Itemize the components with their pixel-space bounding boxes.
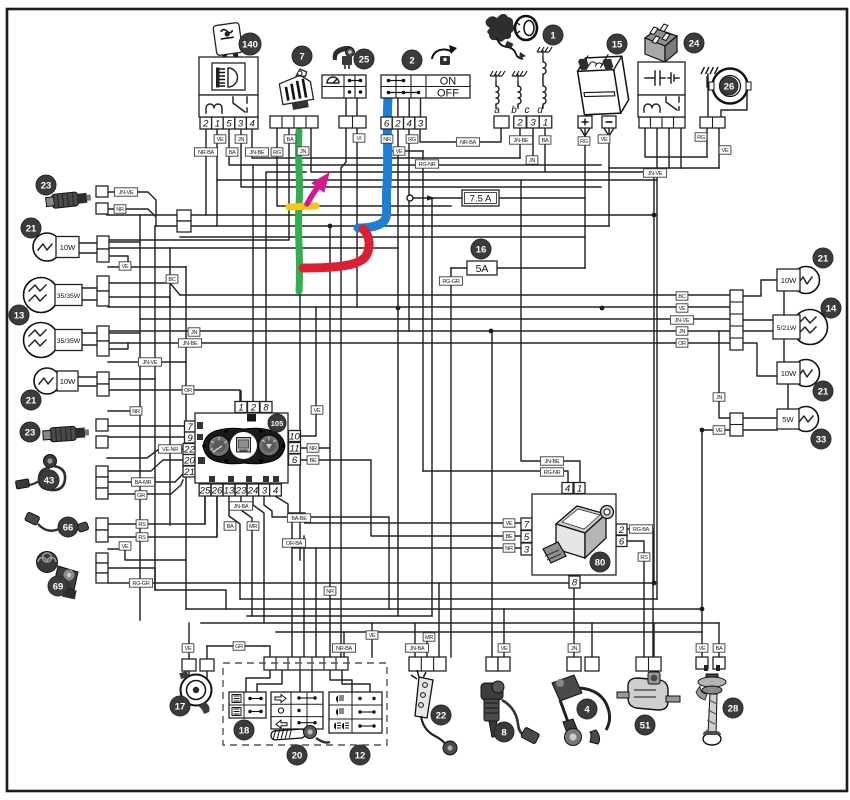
flow arrow — [427, 195, 435, 200]
svg-text:7: 7 — [299, 52, 304, 63]
wire right 10Wlow — [743, 343, 777, 376]
label RG — [578, 137, 590, 145]
label OR — [182, 386, 194, 394]
wire right lamp v2 — [783, 339, 785, 362]
svg-text:NR: NR — [383, 137, 391, 143]
badge 43 — [39, 470, 59, 490]
fuse 7.5A — [462, 190, 499, 206]
relay contact section of 140 — [199, 95, 258, 117]
pin 7 of ECU — [521, 518, 532, 530]
cluster telltale icons bottom — [209, 476, 279, 482]
wire stub 25b — [356, 98, 358, 116]
label NR-BA — [194, 148, 217, 156]
lock switch 69 icon — [37, 552, 79, 600]
pin 11 of cluster right — [289, 443, 301, 454]
label JN — [188, 328, 200, 336]
pin 7 of cluster left — [185, 421, 196, 432]
wire pin2 top — [252, 165, 254, 402]
label NR — [114, 205, 126, 213]
spark plug cap 23 top icon — [45, 190, 91, 209]
right bulb 5W icon — [777, 407, 819, 432]
svg-text:JN: JN — [571, 646, 577, 652]
wire 23 NR — [107, 209, 156, 226]
wire 23b a — [107, 425, 185, 427]
horn 26 icon — [709, 69, 751, 104]
svg-text:a: a — [494, 105, 500, 116]
label BA-MR — [131, 478, 154, 486]
svg-text:15: 15 — [612, 40, 623, 51]
wire bus BC y295 — [180, 294, 730, 296]
connector 43 a — [96, 466, 108, 477]
wire bus y632 — [276, 631, 702, 633]
badge 14 — [821, 298, 841, 318]
pin 2 of ignition switch — [392, 117, 403, 129]
svg-text:5: 5 — [226, 119, 232, 130]
label RG — [271, 148, 283, 156]
connector lamp4b — [97, 384, 109, 396]
label RS — [638, 553, 650, 561]
wire v x432 — [431, 198, 433, 616]
svg-text:3: 3 — [524, 545, 530, 556]
wire bus y609 — [186, 608, 702, 610]
wire bus y599 — [240, 598, 657, 600]
svg-text:21: 21 — [818, 387, 829, 398]
svg-text:JN-BE: JN-BE — [545, 459, 560, 465]
pin 6 of ECU — [616, 536, 627, 547]
connector of 26 — [700, 117, 725, 128]
svg-text:23: 23 — [235, 486, 247, 497]
svg-text:2: 2 — [409, 56, 414, 67]
svg-text:20: 20 — [292, 751, 303, 762]
label NR — [307, 444, 319, 452]
connector divider — [275, 657, 277, 670]
label VE — [119, 262, 131, 270]
svg-text:VE: VE — [601, 137, 608, 143]
badge 22 — [431, 705, 451, 725]
badge 12 — [350, 745, 370, 765]
svg-text:VE: VE — [679, 306, 686, 312]
wire pin22 VE-NR — [107, 449, 183, 458]
connector 8 a — [486, 657, 498, 671]
label JN — [676, 327, 688, 335]
wire right 5W b — [743, 429, 777, 431]
badge 66 — [58, 517, 78, 537]
wire 66 RS1 — [108, 496, 205, 524]
connector 43 b — [96, 477, 108, 488]
ground at horn 26 — [701, 67, 718, 74]
badge 140 — [239, 33, 261, 55]
badge 21 right low — [813, 381, 833, 401]
wire 4 drop2 — [591, 623, 593, 657]
svg-text:7: 7 — [524, 520, 530, 531]
connector divider — [293, 116, 295, 128]
pin 8 of cluster top — [260, 402, 272, 413]
wire battery plus fork — [580, 128, 585, 136]
left headlamp bulb 35/35W icon — [24, 278, 83, 313]
svg-text:24: 24 — [689, 39, 700, 50]
starter relay 24 grey cube icon — [645, 24, 677, 62]
label VE — [719, 146, 731, 154]
connector 28 b — [713, 657, 725, 669]
pin 5 of 140 — [223, 117, 235, 129]
wire horn VE — [188, 623, 190, 659]
badge 1 — [543, 25, 563, 45]
connector divider — [433, 657, 435, 671]
pin 13 of cluster bottom — [223, 484, 235, 496]
wire bus VE y307 — [108, 306, 730, 308]
svg-text:RG-GR: RG-GR — [442, 279, 459, 285]
svg-text:JN-VE: JN-VE — [648, 171, 663, 177]
pin 6 of ignition switch — [381, 117, 392, 129]
connector right col — [730, 290, 743, 350]
wire strip d5 — [330, 669, 352, 692]
svg-text:10W: 10W — [60, 377, 76, 386]
wire 8 drop1 — [491, 331, 493, 657]
svg-text:BA: BA — [287, 137, 294, 143]
svg-text:JN: JN — [716, 395, 722, 401]
svg-text:5W: 5W — [782, 415, 794, 424]
svg-text:10W: 10W — [60, 243, 76, 252]
badge 16 — [471, 239, 491, 259]
wire lamp4 b — [107, 389, 109, 391]
switch table 18 — [229, 692, 266, 718]
svg-text:JN-VE: JN-VE — [119, 190, 134, 196]
wire 2 VE link — [392, 150, 423, 152]
connector 43 c — [96, 488, 108, 499]
svg-text:3: 3 — [530, 118, 536, 129]
connector 22 — [409, 657, 446, 671]
wire bus JN y331 — [108, 330, 730, 332]
connector divider — [281, 116, 283, 128]
wire vbus x155 — [154, 226, 156, 590]
wire horn GR — [207, 645, 264, 647]
label BA — [226, 148, 238, 156]
pin 1 of magneto — [539, 116, 552, 128]
wire ECU RG-BA — [627, 529, 653, 657]
label RG-NR — [415, 160, 438, 168]
svg-text:5/21W: 5/21W — [777, 325, 797, 332]
label NR — [381, 135, 393, 143]
wire right lamp v1 — [783, 292, 785, 315]
wire right JN — [719, 331, 730, 418]
label VE — [214, 135, 226, 143]
wire pin1 top — [240, 391, 242, 402]
wire 2 pin4 RG — [408, 129, 410, 331]
throttle grip 20 icon — [271, 726, 330, 743]
svg-text:NR: NR — [326, 589, 334, 595]
oil level sensor 8 icon — [481, 681, 540, 744]
wire pin8 top — [266, 172, 306, 402]
svg-text:JN-BE: JN-BE — [183, 341, 198, 347]
wire pin21 BA-MR — [108, 474, 183, 482]
label VE — [366, 631, 378, 639]
svg-text:6: 6 — [384, 119, 390, 130]
brake / seat lock 51 icon — [617, 672, 680, 710]
svg-text:1: 1 — [215, 119, 220, 130]
svg-text:4: 4 — [584, 705, 590, 716]
svg-text:OFF: OFF — [437, 88, 459, 100]
svg-text:VE: VE — [699, 646, 706, 652]
svg-text:2: 2 — [202, 119, 209, 130]
wire strip d1 — [246, 669, 270, 692]
wire lamp2 link a — [82, 287, 97, 289]
pin 3 of 140 — [235, 117, 247, 129]
wire lamp1 b — [108, 256, 128, 267]
left headlamp bulb 35/35W icon 2 — [24, 323, 83, 358]
label VE — [713, 426, 725, 434]
inline connector b — [177, 221, 191, 232]
wire bus y623 — [201, 622, 719, 624]
label OR — [676, 339, 688, 347]
label BA — [284, 135, 296, 143]
regulator 7 icon — [277, 68, 314, 112]
wire bus JNVE y319 — [140, 318, 730, 320]
wire 7 BA — [108, 129, 289, 240]
CDI unit 80 box — [532, 494, 616, 575]
wire pin23 d — [241, 496, 252, 616]
connector divider — [673, 117, 675, 128]
magneto coil d — [543, 58, 546, 108]
svg-text:4: 4 — [273, 486, 278, 497]
svg-text:VE: VE — [122, 264, 129, 270]
badge 21b — [21, 390, 41, 410]
connector divider — [305, 116, 307, 128]
wire 23b b — [107, 436, 185, 438]
wire 140 pin1 VE — [216, 129, 218, 226]
svg-text:RG-BA: RG-BA — [633, 527, 650, 533]
svg-text:VE-NR: VE-NR — [162, 447, 178, 453]
svg-text:3: 3 — [238, 119, 244, 130]
label VE — [696, 644, 708, 652]
wire pin10 VE — [300, 307, 316, 436]
label VE — [598, 135, 610, 143]
pin 24 of cluster bottom — [247, 484, 259, 496]
svg-text:NR-BA: NR-BA — [336, 646, 352, 652]
wire 69 b — [108, 568, 226, 609]
wire vbus x140 — [139, 215, 141, 620]
svg-text:JN: JN — [191, 330, 197, 336]
left bulb 10W icon — [33, 233, 79, 261]
wire pin25 d — [204, 496, 206, 524]
svg-text:4: 4 — [565, 484, 570, 495]
connector 69 a — [96, 553, 108, 563]
label VE — [676, 304, 688, 312]
wire v x316 — [315, 548, 317, 657]
wire ECU RS — [627, 541, 644, 657]
svg-text:51: 51 — [640, 721, 651, 732]
pin 23 of cluster bottom — [235, 484, 247, 496]
connector 23 b — [96, 203, 108, 214]
wire lamp left BC — [108, 283, 180, 295]
highlighted wire blue (NR trace) — [358, 97, 388, 228]
pin 3 of magneto — [527, 116, 540, 128]
svg-text:c: c — [525, 105, 530, 116]
label RG — [406, 135, 418, 143]
connector 66 b — [96, 530, 108, 542]
pin 22 of cluster left — [183, 444, 196, 455]
connector lamp4 — [97, 372, 109, 384]
wire 24 a — [645, 127, 707, 157]
connector 23c b — [96, 436, 108, 448]
svg-text:BE: BE — [310, 458, 317, 464]
label JN-VE — [643, 169, 666, 177]
svg-text:JN-VE: JN-VE — [143, 360, 158, 366]
stand switch 22 icon — [411, 670, 457, 755]
wire bus y180 — [217, 179, 657, 181]
svg-text:JN-BE: JN-BE — [250, 150, 265, 156]
inline connector a — [177, 210, 191, 221]
label RS — [136, 520, 148, 528]
wire lamp2 b — [108, 297, 170, 307]
connector divider — [299, 657, 301, 670]
connector lamp2 — [97, 276, 109, 291]
label VE — [393, 147, 405, 155]
svg-text:JN-BA: JN-BA — [410, 646, 425, 652]
svg-text:66: 66 — [63, 523, 74, 534]
connector divider — [287, 657, 289, 670]
svg-text:JN-BE: JN-BE — [514, 138, 529, 144]
badge 2 — [402, 50, 422, 70]
label MR — [247, 522, 259, 530]
wire battery minus fork — [604, 128, 609, 136]
svg-text:VE: VE — [506, 521, 513, 527]
svg-text:13: 13 — [14, 311, 25, 322]
pin 3 of cluster bottom — [259, 484, 271, 496]
left bulb 10W icon 2 — [34, 368, 78, 394]
badge 69 — [48, 576, 68, 596]
wire pin4 d — [275, 496, 305, 523]
wire 28 BA drop — [718, 623, 720, 657]
svg-text:OR: OR — [678, 341, 686, 347]
label BC — [676, 292, 688, 300]
svg-text:JN: JN — [300, 149, 306, 155]
label RG — [695, 133, 707, 141]
wire fuse 7.5A — [409, 197, 463, 199]
wire lamp2 link b — [82, 299, 97, 301]
svg-text:4: 4 — [407, 119, 412, 130]
label RS — [136, 533, 148, 541]
label JN-BE — [245, 148, 268, 156]
label JN-VE — [670, 316, 693, 324]
connector lamp1b — [97, 249, 109, 262]
svg-text:VE: VE — [217, 137, 224, 143]
wire horn26 gnd — [707, 77, 713, 87]
ground at magneto a — [490, 71, 505, 82]
pin 25 of cluster bottom — [199, 484, 211, 496]
svg-text:BC: BC — [168, 277, 175, 283]
wire right lamp v3 — [787, 385, 789, 410]
label JN — [526, 156, 538, 164]
connector horn b — [200, 659, 214, 671]
label JN-BA — [405, 644, 428, 652]
connector of 24 — [639, 117, 685, 128]
wire lamp3 a — [108, 332, 140, 334]
wire pin11 NR — [300, 447, 330, 449]
wire v x292 — [291, 519, 293, 657]
label VE — [498, 644, 510, 652]
connector 51 — [636, 657, 661, 671]
wire 69 VE — [108, 549, 186, 560]
label VE-NR — [158, 445, 181, 453]
svg-text:11: 11 — [290, 444, 300, 455]
label RG-GR — [129, 579, 152, 587]
svg-text:JN-VE: JN-VE — [675, 318, 690, 324]
label BA — [539, 136, 551, 144]
pin 20 of cluster left — [183, 455, 196, 466]
svg-text:BA-MR: BA-MR — [135, 480, 152, 486]
switch table 12 — [329, 692, 382, 733]
pin 8 of ECU — [569, 576, 580, 588]
wire 25 b — [341, 129, 346, 168]
wire NR-BA drop — [343, 632, 345, 657]
badge 21 — [21, 218, 41, 238]
wire 7 pin4 — [311, 129, 654, 172]
wire 43 GR y495 — [108, 480, 183, 494]
wire stub 2b — [397, 98, 399, 117]
wire right 5/21 b — [743, 330, 773, 332]
label NR — [503, 544, 515, 552]
svg-text:9: 9 — [187, 433, 193, 444]
label JN-BA — [229, 502, 252, 510]
ignition coil 4 icon — [552, 675, 610, 746]
wire 25 VI — [356, 129, 358, 307]
wire 24 c — [668, 127, 670, 168]
svg-text:1: 1 — [550, 31, 556, 42]
svg-text:35/35W: 35/35W — [57, 293, 81, 300]
connector 28 a — [696, 657, 708, 669]
svg-text:105: 105 — [271, 419, 284, 428]
label BA-BE — [287, 514, 310, 522]
svg-text:43: 43 — [44, 476, 55, 487]
wire 140 pin4 JN-BE — [252, 129, 520, 158]
wire 7 RG — [277, 129, 451, 206]
label JN-BE — [540, 457, 563, 465]
wire pin24 d — [253, 496, 264, 623]
svg-text:17: 17 — [175, 702, 186, 713]
connector lamp1 — [97, 236, 109, 249]
svg-text:8: 8 — [501, 728, 506, 739]
badge 4 — [577, 699, 597, 719]
svg-text:OR-BA: OR-BA — [286, 541, 303, 547]
wire strip d4 — [311, 669, 313, 692]
wire left JN-VE y362 — [108, 361, 186, 363]
svg-text:1: 1 — [238, 403, 243, 414]
svg-text:VE: VE — [396, 149, 403, 155]
svg-text:24: 24 — [247, 486, 259, 497]
wire lamp3 link b — [82, 344, 97, 346]
badge 15 — [607, 34, 627, 54]
wire lamp4 link b — [78, 385, 97, 387]
connector divider — [712, 117, 714, 128]
junction dots — [328, 213, 705, 612]
svg-text:BE: BE — [506, 534, 513, 540]
wire 7 JN (under green) — [299, 129, 301, 560]
svg-text:7.5 A: 7.5 A — [470, 194, 492, 205]
horn 17 icon — [179, 671, 211, 714]
svg-text:GR: GR — [137, 493, 145, 499]
svg-text:JN: JN — [679, 329, 685, 335]
wire lamp2 a — [107, 282, 109, 284]
wire stub 2d — [420, 98, 422, 117]
pin 1 of ECU — [574, 483, 585, 494]
badge 105 — [268, 414, 286, 432]
svg-text:3: 3 — [418, 119, 424, 130]
svg-text:6: 6 — [619, 537, 625, 548]
starter relay 24 schematic box — [638, 62, 685, 95]
label BE — [503, 532, 515, 540]
wire stub 2a — [386, 98, 388, 117]
svg-text:JN: JN — [529, 158, 535, 164]
